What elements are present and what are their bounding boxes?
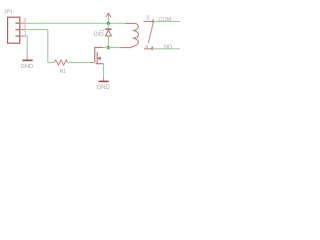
power symbol VCC arrow <box>106 13 111 17</box>
wire net VCC: JP1 pin3 to relay coil <box>25 22 125 24</box>
wire diode cathode lead <box>107 23 109 28</box>
transistor Q1 channel <box>96 52 98 64</box>
transistor Q1 bulk arrow <box>98 57 101 60</box>
relay coil K1 <box>120 23 139 47</box>
diode D1 cathode bar <box>105 28 111 30</box>
JP1 pin 3 lead <box>20 22 25 24</box>
wire pin1 net horizontal <box>25 35 27 37</box>
resistor R1 zigzag <box>54 60 68 65</box>
contact NO tick <box>151 46 153 50</box>
relay lever <box>148 23 153 43</box>
svg-text:NO: NO <box>164 45 173 51</box>
wire VCC arrow stem <box>107 17 109 24</box>
svg-text:4: 4 <box>145 44 148 50</box>
svg-text:3: 3 <box>146 15 149 21</box>
connector JP1 body <box>8 17 20 43</box>
background <box>0 0 180 93</box>
wire drain node horizontal <box>103 47 120 49</box>
ground GND left bar <box>22 59 32 61</box>
junction node drain <box>107 46 110 49</box>
relay contact COM pin <box>144 20 154 22</box>
svg-text:GND: GND <box>21 64 34 70</box>
JP1 pin 1 head <box>15 35 19 37</box>
svg-text:D1: D1 <box>99 29 105 36</box>
svg-text:GND: GND <box>97 85 111 91</box>
wire NO net <box>152 48 180 50</box>
wire resistor to gate <box>68 62 90 64</box>
diode D1 triangle <box>106 30 112 36</box>
contact COM tick <box>152 20 154 24</box>
relay contact NO pin <box>144 48 152 50</box>
svg-text:JP1: JP1 <box>4 9 13 15</box>
svg-text:R1: R1 <box>60 69 67 75</box>
ground GND right bar <box>99 80 109 82</box>
JP1 pin 3 head <box>15 22 19 24</box>
wire diode anode lead <box>107 36 109 47</box>
wire pin2 net vertical <box>47 30 49 63</box>
JP1 pin 2 lead <box>20 29 25 31</box>
JP1 pin 2 head <box>15 29 19 31</box>
ground GND right pin <box>103 77 105 81</box>
svg-text:COM: COM <box>158 17 171 23</box>
wire source net <box>103 64 105 78</box>
wire pin2 net horizontal <box>25 29 48 31</box>
transistor Q1 drain lead <box>95 47 103 62</box>
junction node VCC <box>107 22 110 25</box>
JP1 pin 1 lead <box>20 35 25 37</box>
transistor Q1 source lead <box>95 63 103 65</box>
wire to resistor <box>48 62 54 64</box>
wire COM net <box>153 20 180 22</box>
wire pin1 net vertical <box>26 36 28 57</box>
transistor Q1 gate pin <box>89 62 95 64</box>
svg-text:Q1: Q1 <box>94 31 101 37</box>
ground GND left pin <box>26 57 28 61</box>
